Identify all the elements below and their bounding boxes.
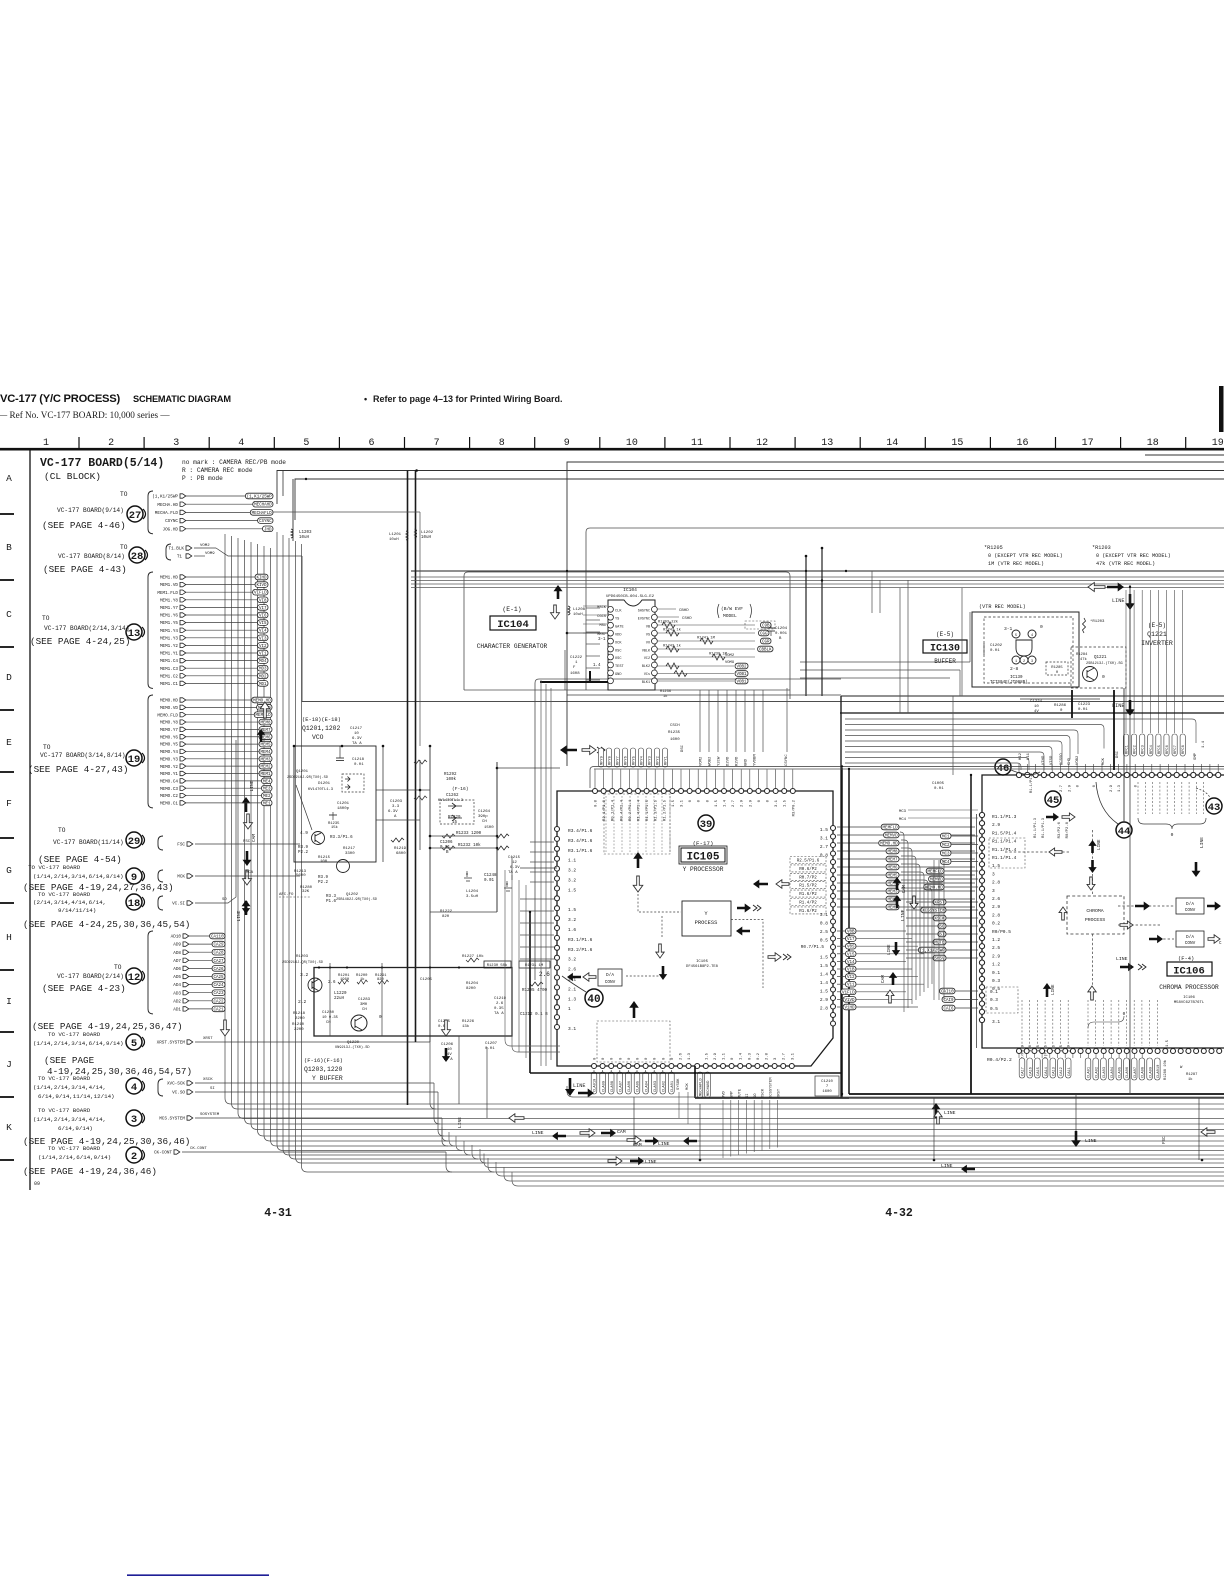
- svg-text:AD10: AD10: [171, 935, 182, 940]
- svg-text:8200: 8200: [466, 987, 476, 991]
- svg-text:H11: H11: [1027, 752, 1031, 760]
- D/A CONV box with 40: [562, 969, 622, 1007]
- svg-text:VC-177 BOARD(8/14): VC-177 BOARD(8/14): [58, 553, 125, 560]
- svg-text:CA17: CA17: [1022, 1067, 1026, 1076]
- svg-text:5: 5: [1015, 634, 1017, 638]
- D/A CONV right boxes: [1176, 898, 1222, 947]
- svg-text:CA29: CA29: [213, 944, 224, 948]
- svg-text:CAI6: CAI6: [943, 1008, 954, 1012]
- svg-text:V12: V12: [847, 976, 855, 980]
- bundle from group27 labels: [277, 532, 494, 1172]
- svg-text:RFY7: RFY7: [617, 756, 621, 765]
- svg-text:TO: TO: [120, 544, 128, 551]
- svg-text:L1220: L1220: [334, 992, 347, 996]
- svg-text:0.3: 0.3: [992, 978, 1000, 984]
- svg-text:MEMO.C1: MEMO.C1: [160, 802, 178, 807]
- svg-text:D/A: D/A: [1186, 902, 1194, 907]
- svg-text:VC-177 BOARD(3/14,8/14): VC-177 BOARD(3/14,8/14): [40, 752, 125, 759]
- connector 9 signal row MCK: [158, 870, 300, 882]
- connector J4 circled 4: [126, 1078, 145, 1094]
- svg-text:CLA04: CLA04: [645, 1080, 649, 1092]
- IC105 right side dashed labels: [790, 857, 826, 914]
- svg-text:•: •: [364, 394, 367, 404]
- svg-text:T1: T1: [177, 555, 183, 560]
- svg-text:1.5: 1.5: [820, 989, 828, 995]
- svg-text:XCK: XCK: [615, 641, 622, 645]
- svg-text:0: 0: [1171, 832, 1174, 838]
- svg-text:MEMO.Y2: MEMO.Y2: [160, 765, 178, 770]
- svg-text:TA A: TA A: [508, 871, 518, 875]
- svg-text:CA11: CA11: [1068, 1066, 1072, 1076]
- svg-text:3.1: 3.1: [568, 1026, 576, 1032]
- svg-text:(F-16)(F-16): (F-16)(F-16): [304, 1058, 343, 1064]
- svg-text:MEM1.Y5: MEM1.Y5: [160, 621, 178, 626]
- svg-text:1: 1: [43, 438, 49, 449]
- svg-text:MEM7: MEM7: [887, 859, 898, 863]
- svg-text:P : PB mode: P : PB mode: [182, 475, 223, 482]
- svg-text:V1HD: V1HD: [844, 1007, 855, 1011]
- svg-text:IC106: IC106: [1173, 966, 1205, 978]
- svg-text:VOM2: VOM2: [700, 756, 704, 766]
- circled 39: [698, 815, 714, 831]
- svg-text:MEMO.C4: MEMO.C4: [160, 779, 178, 784]
- svg-text:1.5: 1.5: [1037, 1044, 1041, 1052]
- svg-text:6.3V: 6.3V: [388, 810, 398, 814]
- svg-text:1.3: 1.3: [1118, 784, 1122, 792]
- svg-text:VC-177 BOARD(5/14): VC-177 BOARD(5/14): [40, 457, 164, 470]
- svg-text:CA21: CA21: [213, 1008, 224, 1012]
- svg-text:R1241 1M: R1241 1M: [697, 637, 715, 641]
- MC labels: [899, 810, 978, 865]
- svg-text:(SEE PAGE: (SEE PAGE: [44, 1055, 95, 1066]
- svg-text:V1VD: V1VD: [844, 999, 855, 1003]
- svg-text:E: E: [6, 737, 12, 748]
- svg-text:0.01: 0.01: [354, 763, 364, 767]
- svg-text:CLA06: CLA06: [628, 1081, 632, 1092]
- svg-text:6800: 6800: [396, 852, 406, 856]
- svg-text:R2.1/P1.8: R2.1/P1.8: [602, 799, 607, 821]
- F-16 detector area: [438, 786, 521, 919]
- svg-text:MEM1.Y4: MEM1.Y4: [160, 629, 178, 634]
- svg-text:CSYNC: CSYNC: [259, 520, 272, 524]
- svg-text:2.6: 2.6: [992, 896, 1000, 902]
- svg-text:VOM9: VOM9: [725, 661, 735, 665]
- XRST label group: [906, 899, 978, 961]
- svg-text:MEMO.Y4: MEMO.Y4: [160, 750, 178, 755]
- svg-text:TEST: TEST: [615, 665, 624, 669]
- svg-text:YS: YS: [615, 617, 619, 621]
- boxed labels V0B group right of IC105: [837, 928, 924, 1010]
- svg-text:VC-177 BOARD(2/14): VC-177 BOARD(2/14): [57, 973, 124, 980]
- svg-text:MUTE: MUTE: [738, 1088, 742, 1098]
- svg-text:V0B: V0B: [847, 931, 855, 935]
- svg-text:MEMO.HD: MEMO.HD: [880, 843, 898, 847]
- svg-text:MEMVD: MEMVD: [930, 879, 943, 883]
- svg-text:1.3: 1.3: [688, 1052, 692, 1060]
- connector 18 header text: [33, 891, 106, 914]
- svg-text:OSC: OSC: [615, 649, 621, 653]
- curve to LINE top: [567, 1086, 573, 1097]
- verticals mid right: [541, 547, 962, 1066]
- svg-text:C1224: C1224: [1030, 700, 1043, 704]
- svg-text:(1/14,2/14,3/14,6/14,9/14): (1/14,2/14,3/14,6/14,9/14): [33, 1040, 123, 1047]
- svg-text:IC105: IC105: [696, 960, 709, 964]
- svg-text:2.7: 2.7: [732, 799, 736, 807]
- svg-text:VI1: VI1: [259, 653, 267, 657]
- svg-text:0 (EXCEPT VTR REC MODEL): 0 (EXCEPT VTR REC MODEL): [1096, 553, 1171, 559]
- svg-text:2.9: 2.9: [992, 904, 1000, 910]
- Y PROCESS box: [626, 880, 791, 989]
- svg-text:PROCESS: PROCESS: [1085, 917, 1105, 923]
- svg-text:2.9: 2.9: [992, 822, 1000, 828]
- svg-text:(SEE PAGE 4-46): (SEE PAGE 4-46): [42, 520, 126, 531]
- svg-text:VCO: VCO: [312, 734, 324, 741]
- svg-text:R1.1/P1.4: R1.1/P1.4: [992, 839, 1017, 845]
- svg-text:1.5: 1.5: [672, 799, 676, 807]
- connector J9 circled 9: [126, 868, 145, 884]
- svg-text:CAM: CAM: [251, 834, 257, 843]
- svg-text:TO VC-177 BOARD: TO VC-177 BOARD: [38, 1075, 91, 1082]
- svg-text:R1.4/P1.4: R1.4/P1.4: [637, 799, 642, 821]
- svg-text:32K: 32K: [302, 890, 310, 894]
- svg-text:R1287: R1287: [1186, 1073, 1197, 1077]
- LINE arrow down mid right: [1112, 585, 1135, 716]
- CAI labels: [940, 987, 1018, 1013]
- IC105 right pin column: [801, 826, 836, 1027]
- IC104 left pin wires: [586, 608, 600, 680]
- wire T1 route down and right: [302, 556, 1224, 702]
- MEMFLD labels 2: [924, 868, 978, 890]
- svg-text:RFY5: RFY5: [633, 756, 637, 765]
- svg-text:MEM3: MEM3: [260, 758, 271, 762]
- svg-text:R3.9: R3.9: [318, 876, 329, 880]
- connector J18 circled 18: [126, 894, 145, 910]
- svg-text:R1204: R1204: [466, 982, 479, 986]
- svg-text:IC105: IC105: [686, 852, 719, 864]
- svg-text:(SEE PAGE 4-24,25,30,36,45,54): (SEE PAGE 4-24,25,30,36,45,54): [23, 919, 190, 930]
- page corner mark 09: [34, 1181, 40, 1187]
- arrow pair top right: [1088, 583, 1124, 592]
- svg-text:0.2: 0.2: [757, 1052, 761, 1060]
- svg-text:VI4: VI4: [259, 630, 267, 634]
- connector 18 see-page text: [23, 919, 190, 930]
- svg-text:R1217: R1217: [343, 847, 356, 851]
- inductor L1208 with arrows: [551, 585, 586, 619]
- svg-text:MEMO.Y3: MEMO.Y3: [160, 757, 178, 762]
- svg-text:5: 5: [303, 438, 309, 449]
- svg-text:Q1201,1202: Q1201,1202: [302, 725, 341, 732]
- svg-text:VC-177 (Y/C PROCESS): VC-177 (Y/C PROCESS): [0, 393, 120, 405]
- svg-text:UPD6450CB-604-SLG-E2: UPD6450CB-604-SLG-E2: [606, 595, 655, 599]
- svg-text:19: 19: [128, 754, 141, 766]
- svg-text:P1.6: P1.6: [326, 900, 337, 904]
- svg-text:*R1203: *R1203: [1090, 619, 1105, 624]
- svg-text:R1243 1k: R1243 1k: [663, 644, 681, 649]
- thick ground wire: [540, 671, 608, 682]
- chroma process dashed box: [1067, 896, 1124, 934]
- svg-text:3: 3: [131, 1114, 137, 1126]
- svg-text:0: 0: [1102, 674, 1105, 680]
- svg-text:2.9: 2.9: [749, 799, 753, 807]
- svg-text:1.4: 1.4: [820, 980, 828, 986]
- svg-text:R0.2/P1.4: R0.2/P1.4: [628, 799, 633, 821]
- svg-text:MECHAHD: MECHAHD: [254, 504, 272, 508]
- connector 13 see-page text: [30, 636, 130, 647]
- svg-text:390p: 390p: [478, 815, 488, 819]
- svg-text:(1,K1/25WP: (1,K1/25WP: [152, 495, 178, 500]
- svg-text:MEM3: MEM3: [887, 891, 898, 895]
- VCO area extra components: [376, 745, 560, 912]
- svg-text:MD2: MD2: [259, 675, 267, 679]
- IC104 right resistors: [658, 609, 774, 699]
- wires IC104 to IC105 label area: [700, 688, 787, 752]
- svg-text:0.35: 0.35: [494, 1007, 504, 1011]
- svg-text:V1FLD: V1FLD: [842, 991, 855, 995]
- svg-text:AD5: AD5: [173, 975, 181, 980]
- connector 29 header text: [53, 827, 124, 846]
- svg-text:CA25: CA25: [213, 976, 224, 980]
- svg-text:CSCH: CSCH: [670, 724, 680, 728]
- svg-text:3.1: 3.1: [775, 799, 779, 807]
- svg-text:VI2: VI2: [259, 645, 267, 649]
- svg-text:CAM: CAM: [617, 1129, 626, 1135]
- svg-text:R3.1/P1.6: R3.1/P1.6: [568, 848, 593, 854]
- svg-text:RFY1: RFY1: [665, 755, 669, 765]
- svg-text:2SB1482J-9R(TX0).SD: 2SB1482J-9R(TX0).SD: [336, 897, 377, 902]
- svg-text:(2/14,3/14,4/14,6/14,: (2/14,3/14,4/14,6/14,: [33, 899, 106, 906]
- svg-text:0: 0: [1040, 624, 1043, 630]
- svg-text:SYSOK: SYSOK: [677, 1078, 681, 1090]
- svg-text:R1203: R1203: [296, 955, 309, 959]
- svg-text:AD9: AD9: [173, 943, 181, 948]
- svg-text:CLA01: CLA01: [671, 1080, 675, 1092]
- svg-text:R0.6/P2: R0.6/P2: [799, 867, 817, 872]
- svg-text:MEM1.Y2: MEM1.Y2: [160, 644, 178, 649]
- svg-text:(B/W EVF: (B/W EVF: [721, 606, 743, 612]
- svg-text:MC3: MC3: [899, 810, 907, 814]
- svg-text:R1286: R1286: [1054, 704, 1067, 708]
- svg-text:AD6: AD6: [173, 967, 181, 972]
- svg-text:R1.6/P2: R1.6/P2: [799, 892, 817, 897]
- svg-text:C1262: C1262: [446, 794, 459, 798]
- svg-text:K: K: [6, 1122, 12, 1133]
- svg-text:C1215: C1215: [508, 856, 521, 860]
- IC106 bottom pin numbers dashed: [1021, 1000, 1171, 1066]
- svg-text:1.4: 1.4: [593, 664, 601, 668]
- vertical drops from IC105 bottom labels: [679, 1092, 778, 1158]
- svg-text:D: D: [6, 672, 12, 683]
- svg-text:TA A: TA A: [494, 1012, 504, 1016]
- svg-text:1.4: 1.4: [820, 972, 828, 978]
- svg-text:CBHD: CBHD: [679, 609, 689, 613]
- svg-text:15k: 15k: [331, 825, 339, 830]
- svg-text:2.7: 2.7: [820, 844, 828, 850]
- svg-text:GATE: GATE: [615, 625, 624, 629]
- svg-text:C1201: C1201: [337, 802, 350, 806]
- connector 3 signal row MCS.SYSTEM: [159, 1113, 442, 1122]
- wires VOB labels to VTR area: [800, 612, 970, 696]
- svg-text:0.01: 0.01: [1078, 708, 1088, 712]
- svg-text:MEMO.Y1: MEMO.Y1: [160, 772, 178, 777]
- svg-text:VB: VB: [646, 625, 650, 629]
- svg-text:C1218: C1218: [352, 758, 365, 762]
- circled 46: [995, 759, 1040, 775]
- svg-text:10: 10: [1034, 705, 1039, 709]
- B/W EVF MODEL note: [718, 604, 776, 629]
- svg-text:VI3: VI3: [259, 637, 267, 641]
- connector 5 see-page text: [44, 1055, 192, 1077]
- svg-text:3.1: 3.1: [681, 799, 685, 807]
- svg-text:1.5: 1.5: [820, 963, 828, 969]
- svg-text:2.8: 2.8: [820, 1006, 828, 1012]
- svg-text:CA23: CA23: [213, 992, 224, 996]
- column numbers 1-19: [43, 437, 1224, 449]
- svg-text:3M0: 3M0: [360, 1003, 368, 1007]
- svg-text:R2.5/P1.6: R2.5/P1.6: [797, 859, 820, 864]
- IC105 label block: [679, 840, 727, 873]
- connector 2 header text: [38, 1145, 111, 1161]
- svg-text:C1280: C1280: [322, 1011, 335, 1015]
- svg-text:MEM1.Y6: MEM1.Y6: [160, 614, 178, 619]
- svg-text:MEM1.Y1: MEM1.Y1: [160, 652, 178, 657]
- svg-text:R3.4/P1.6: R3.4/P1.6: [568, 838, 593, 844]
- svg-text:V15: V15: [847, 953, 855, 957]
- connector 27 signal rows: [148, 491, 273, 534]
- svg-text:4-31: 4-31: [264, 1207, 292, 1220]
- enclosure box Y area: [535, 679, 841, 980]
- svg-text:MECHAFLD: MECHAFLD: [700, 1078, 704, 1096]
- svg-text:(VTR REC MODEL): (VTR REC MODEL): [979, 604, 1026, 610]
- svg-text:1.2: 1.2: [992, 937, 1000, 943]
- svg-text:C1206: C1206: [441, 1043, 454, 1047]
- svg-text:CGR: CGR: [762, 641, 770, 645]
- svg-text:MD3: MD3: [259, 668, 267, 672]
- ref number line: [0, 410, 170, 420]
- svg-text:2.8: 2.8: [992, 912, 1000, 918]
- svg-text:CLA08: CLA08: [611, 1081, 615, 1092]
- arrow pair left of IC105 labels: [560, 745, 605, 755]
- svg-text:R1.1/P1.3: R1.1/P1.3: [1029, 773, 1034, 793]
- blue footer line: [127, 1574, 269, 1576]
- svg-text:2.5: 2.5: [820, 929, 828, 935]
- svg-text:3-1: 3-1: [1004, 626, 1013, 632]
- svg-text:VOB2: VOB2: [736, 666, 747, 670]
- svg-text:VBLK: VBLK: [642, 649, 651, 653]
- IC106 rotated labels above top row: [1019, 734, 1206, 765]
- svg-text:3.1: 3.1: [992, 1019, 1000, 1025]
- svg-text:L1204: L1204: [466, 890, 479, 894]
- LINE arrow bottom left of IC105: [573, 1083, 594, 1098]
- svg-text:3: 3: [1031, 660, 1033, 664]
- svg-text:2.8: 2.8: [766, 1052, 770, 1060]
- svg-text:R0/P0.5: R0/P0.5: [992, 929, 1011, 935]
- svg-text:0.5: 0.5: [990, 1007, 998, 1012]
- IC105 bottom pin row: [592, 1064, 795, 1069]
- svg-text:1.2: 1.2: [992, 962, 1000, 968]
- svg-text:17: 17: [1082, 438, 1094, 449]
- top bus wire 2: [277, 469, 1224, 504]
- svg-text:R1210: R1210: [292, 1023, 305, 1027]
- circled 44: [1096, 782, 1132, 838]
- svg-text:1.5: 1.5: [784, 799, 788, 807]
- svg-text:(F-16): (F-16): [452, 786, 469, 792]
- svg-text:R1227 10k: R1227 10k: [462, 954, 484, 959]
- svg-text:1M (VTR REC MODEL): 1M (VTR REC MODEL): [988, 561, 1044, 567]
- svg-text:CLA01: CLA01: [1088, 1066, 1092, 1078]
- svg-text:CLA05: CLA05: [1119, 1067, 1123, 1078]
- svg-text:DSC: DSC: [1116, 750, 1120, 758]
- svg-text:CAM: CAM: [902, 885, 907, 893]
- svg-text:V1B: V1B: [847, 969, 855, 973]
- svg-text:1.5: 1.5: [568, 887, 576, 893]
- svg-text:BUFFER: BUFFER: [934, 658, 956, 665]
- svg-text:9: 9: [564, 438, 570, 449]
- svg-text:Y PROCESSOR: Y PROCESSOR: [683, 866, 724, 873]
- svg-text:R3/P0.2: R3/P0.2: [791, 799, 796, 816]
- svg-text:XRST: XRST: [203, 1037, 213, 1041]
- svg-text:3.2: 3.2: [568, 917, 576, 923]
- capacitor C1222: [565, 650, 601, 690]
- svg-text:R1233 1200: R1233 1200: [456, 832, 482, 836]
- svg-text:1.6: 1.6: [1029, 1044, 1033, 1052]
- svg-text:MCK: MCK: [1102, 757, 1106, 765]
- VCO lower labels: [279, 800, 407, 904]
- Y buffer components: [322, 992, 371, 1025]
- IC104 chip: [566, 587, 658, 690]
- svg-text:LINE: LINE: [1051, 984, 1056, 995]
- svg-text:(F-4): (F-4): [1178, 956, 1194, 962]
- svg-text:LINE: LINE: [1085, 1138, 1097, 1144]
- svg-text:RFC7: RFC7: [1174, 745, 1178, 754]
- svg-text:6.3V: 6.3V: [510, 866, 520, 870]
- svg-text:CA16: CA16: [1029, 1067, 1033, 1076]
- svg-text:(1,X1/25WP: (1,X1/25WP: [920, 949, 946, 954]
- svg-text:VS: VS: [646, 633, 650, 637]
- vertical wire drops center bottom: [442, 870, 702, 1161]
- svg-text:KV1470TL1-3: KV1470TL1-3: [308, 788, 334, 792]
- svg-text:GND: GND: [615, 673, 621, 677]
- Y buffer caption: [304, 1058, 343, 1082]
- svg-text:CLA02: CLA02: [1095, 1067, 1099, 1078]
- svg-text:CLA010: CLA010: [1157, 1065, 1161, 1078]
- svg-text:LINE: LINE: [944, 1110, 956, 1116]
- svg-text:TO: TO: [43, 744, 51, 751]
- svg-text:XVC-SCK: XVC-SCK: [167, 1082, 185, 1087]
- svg-text:27: 27: [129, 510, 142, 522]
- svg-text:1k: 1k: [1188, 1077, 1193, 1082]
- svg-text:2.9: 2.9: [992, 953, 1000, 959]
- svg-text:Q1201: Q1201: [296, 770, 309, 774]
- svg-text:R1.1/P1.3: R1.1/P1.3: [992, 814, 1017, 820]
- svg-text:CLA07: CLA07: [620, 1081, 624, 1092]
- svg-text:VOB1: VOB1: [736, 681, 747, 685]
- svg-text:CH: CH: [326, 1021, 331, 1025]
- svg-text:2-8: 2-8: [1010, 666, 1019, 672]
- svg-text:3: 3: [992, 871, 995, 877]
- svg-text:(1/14,2/14,6/14,9/14): (1/14,2/14,6/14,9/14): [38, 1154, 111, 1161]
- C1202 capacitor: [984, 643, 1003, 655]
- svg-text:RFY4: RFY4: [641, 755, 645, 765]
- svg-text:SMP: SMP: [1194, 752, 1198, 760]
- svg-text:28: 28: [131, 551, 144, 563]
- svg-text:LINE: LINE: [658, 1141, 670, 1147]
- svg-text:CGG: CGG: [760, 633, 768, 637]
- R1205 annotation: [984, 545, 1063, 567]
- svg-text:MEMO.HD: MEMO.HD: [160, 699, 178, 704]
- svg-text:9/14/11/14): 9/14/11/14): [58, 907, 96, 914]
- svg-text:(1/14,2/14,3/14,6/14,8/14): (1/14,2/14,3/14,6/14,8/14): [33, 873, 123, 880]
- connector 4 header text: [33, 1075, 115, 1100]
